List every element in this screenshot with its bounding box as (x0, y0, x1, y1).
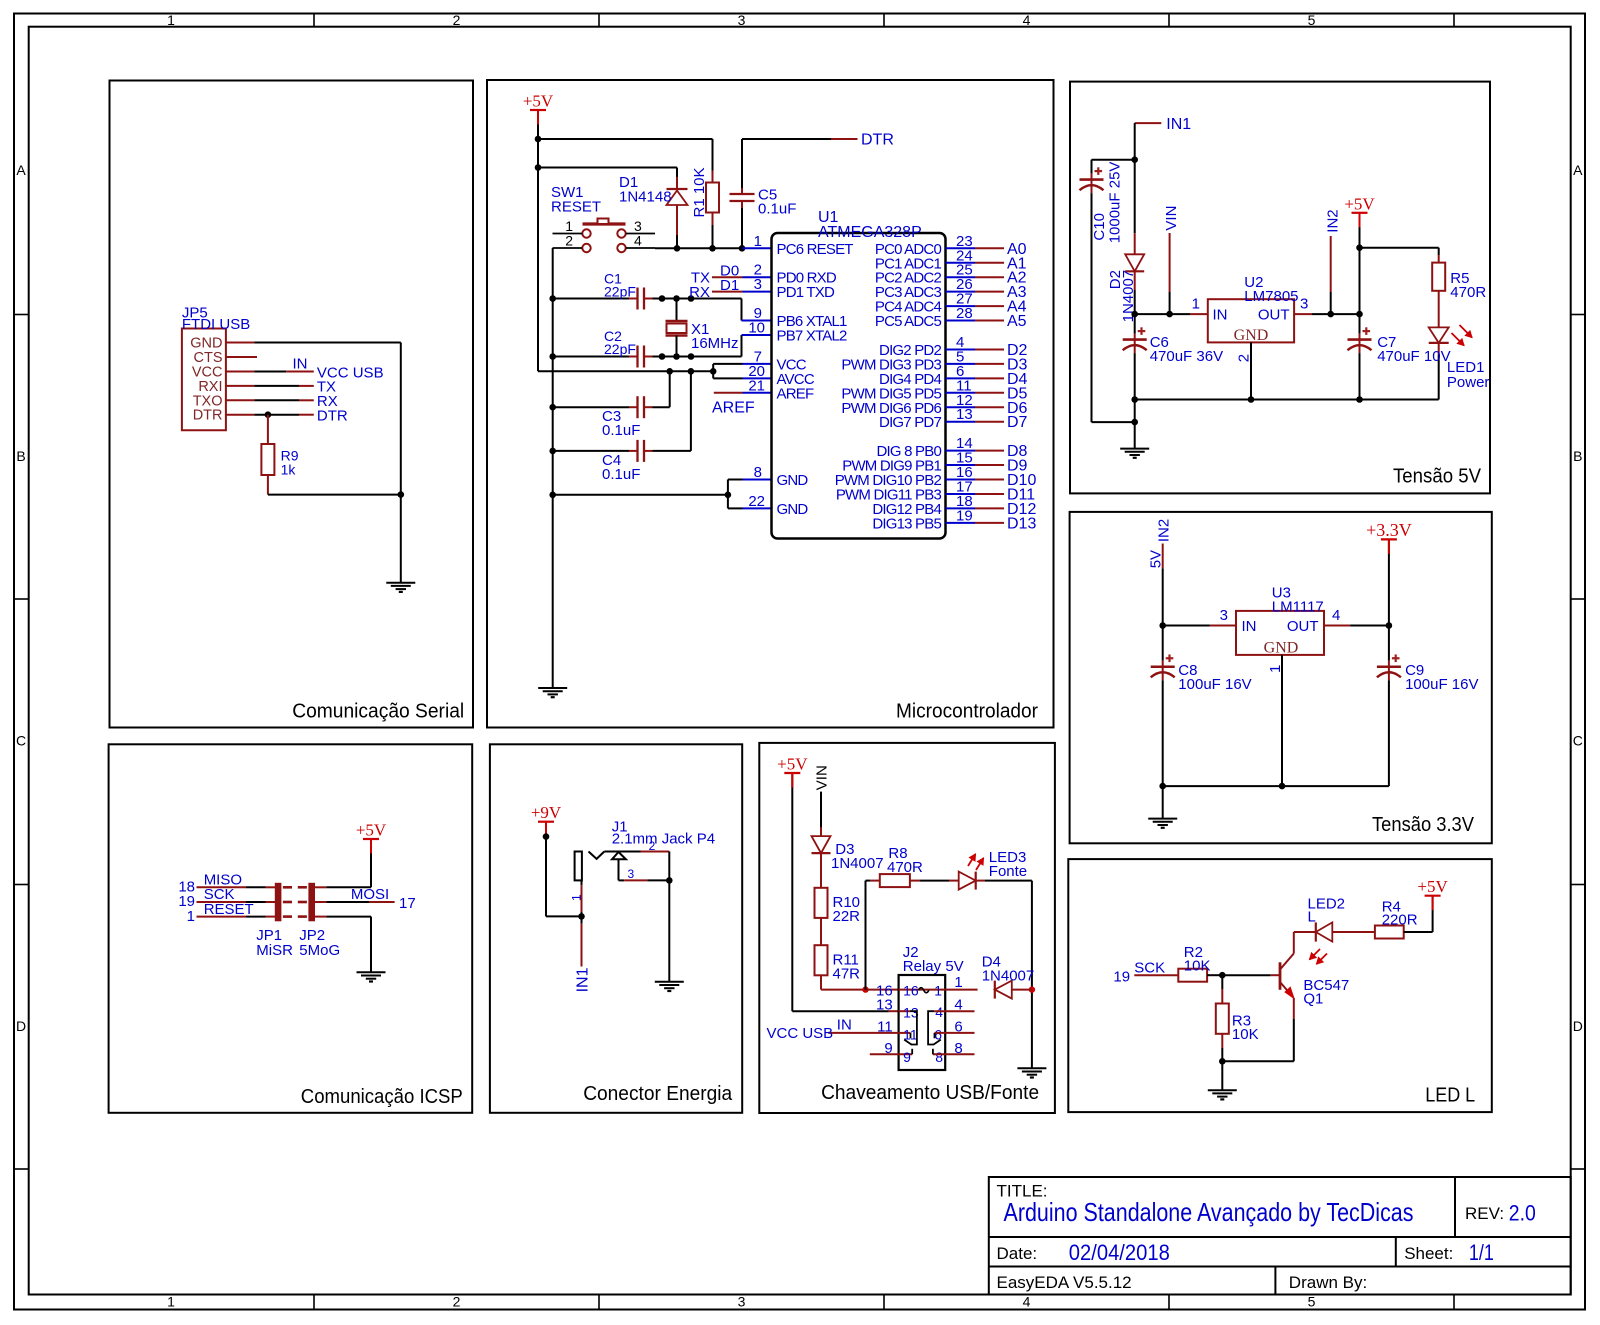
svg-text:100uF 16V: 100uF 16V (1178, 676, 1251, 693)
svg-text:3: 3 (634, 218, 642, 234)
wire pin 23 to net A0 (975, 247, 1004, 249)
svg-text:RESET: RESET (204, 901, 254, 918)
wire pin 11 to net D5 (975, 392, 1004, 394)
frame row ticks right (1571, 314, 1585, 316)
resistor R4 220R (1375, 926, 1404, 939)
svg-text:1: 1 (754, 233, 762, 250)
svg-text:1N4007: 1N4007 (831, 855, 884, 872)
J2 pin 6 stub (935, 1032, 975, 1034)
svg-text:1: 1 (167, 1294, 175, 1310)
net stub IN2 (1330, 236, 1332, 292)
junction IN2 OUT row (1327, 311, 1334, 318)
U1 pin 19 stub right (946, 522, 976, 524)
svg-text:5: 5 (1308, 12, 1316, 28)
svg-text:IN: IN (293, 355, 308, 372)
svg-text:8: 8 (754, 464, 762, 481)
U1 pin 5 stub right (946, 363, 976, 365)
svg-text:MiSR: MiSR (256, 942, 293, 959)
svg-text:1/1: 1/1 (1469, 1240, 1494, 1265)
LED3 emission arrows (968, 854, 976, 866)
wire pin 25 to net A2 (975, 276, 1004, 278)
wire +5V to R5 (1360, 247, 1439, 249)
svg-text:02/04/2018: 02/04/2018 (1069, 1240, 1170, 1265)
capacitor C5 (741, 188, 743, 194)
wire AREF pin21 (714, 392, 743, 394)
svg-text:1: 1 (570, 894, 584, 901)
regulator U2 LM7805 body (1208, 299, 1294, 342)
wire reset net row (655, 247, 743, 249)
svg-text:3: 3 (754, 276, 762, 293)
wire R2 to base (1207, 974, 1222, 976)
svg-text:RX: RX (689, 284, 710, 301)
wire R3 bottom (1221, 1034, 1223, 1048)
junction GND rail (398, 491, 405, 498)
U1 pin 25 stub right (946, 276, 976, 278)
diode D3 1N4007 (812, 836, 831, 853)
svg-text:R1 10K: R1 10K (691, 167, 708, 217)
wire +9V stem (545, 822, 547, 917)
wire R8 to LED3 (910, 880, 920, 882)
svg-text:10K: 10K (1232, 1026, 1259, 1043)
JP5 pin VCC lead (226, 371, 254, 373)
ground symbol tensao33 (1148, 818, 1177, 820)
U1 pin 27 stub right (946, 305, 976, 307)
junction gnd C6 (1131, 396, 1138, 403)
svg-text:MOSI: MOSI (351, 886, 389, 903)
block border Conector Energia (490, 744, 742, 1113)
wire C4 row (553, 450, 629, 452)
svg-text:EasyEDA V5.5.12: EasyEDA V5.5.12 (997, 1273, 1132, 1292)
junction gnd U2 (1248, 396, 1255, 403)
U3 pin 1 GND wire (1281, 655, 1283, 786)
U1 pin 4 stub right (946, 348, 976, 350)
junction C10 top (1131, 156, 1138, 163)
svg-text:IN1: IN1 (575, 967, 592, 992)
svg-text:4: 4 (1332, 607, 1340, 624)
LED LED2 L (1316, 922, 1333, 941)
junction C1 row a (659, 295, 666, 302)
wire +5V rail to R1 top (538, 138, 713, 140)
junction gnd C7 (1356, 396, 1363, 403)
ground symbol ledl (1208, 1089, 1237, 1091)
J2 row13 stub inside (899, 1010, 910, 1012)
svg-text:19: 19 (956, 507, 973, 524)
switch SW1 RESET (583, 222, 626, 225)
U3 pin 4 wire OUT (1324, 625, 1350, 627)
svg-text:Sheet:: Sheet: (1404, 1244, 1453, 1263)
wire +5V left rail (791, 773, 793, 1011)
svg-text:GND: GND (1234, 327, 1269, 344)
J2 pin 4 stub (934, 1010, 974, 1012)
JP1-JP2 dashed links (283, 886, 292, 889)
svg-text:RESET: RESET (551, 199, 601, 216)
regulator U3 LM1117 body (1236, 611, 1324, 655)
ground symbol serial block (386, 582, 415, 584)
svg-text:IN2: IN2 (1324, 209, 1341, 232)
svg-text:19: 19 (1113, 969, 1130, 986)
diode D1 1N4148 (676, 177, 678, 189)
J1 pin 1 lead (581, 880, 583, 885)
J2 coil line row16 inside (899, 989, 946, 991)
svg-text:B: B (16, 448, 25, 464)
U1 pin 21 stub (743, 392, 772, 394)
relay J2 body (899, 975, 946, 1070)
wire +5V rail vertical (537, 110, 539, 371)
LED2 emission arrows (1310, 949, 1321, 960)
frame column ticks top (313, 14, 315, 27)
wire GND net to right rail (254, 342, 400, 344)
capacitor C7 470uF 10V (1359, 314, 1361, 334)
SW1 pin 3 lead (626, 233, 655, 235)
wire R5 to LED1 (1438, 291, 1440, 328)
wire GND row tensao5v (1135, 399, 1439, 401)
junction C2 row b (688, 353, 695, 360)
JP5 pin CTS stub (226, 356, 257, 358)
capacitor C9 100uF 16V (1388, 626, 1390, 661)
wire RESET row (197, 916, 247, 918)
wire DTR to label (254, 414, 299, 416)
svg-text:1: 1 (167, 12, 175, 28)
svg-text:10: 10 (748, 320, 765, 337)
svg-text:1: 1 (954, 974, 962, 991)
svg-text:8: 8 (954, 1040, 962, 1057)
wire IN2 down to IN row (1162, 568, 1164, 625)
svg-text:1N4148: 1N4148 (619, 189, 672, 206)
svg-text:IN1: IN1 (1166, 116, 1191, 133)
J2 pin 9 stub (870, 1053, 912, 1055)
wire pin 12 to net D6 (975, 406, 1004, 408)
wire 33 gnd down (1162, 786, 1164, 819)
svg-text:2: 2 (565, 233, 573, 249)
svg-text:5MoG: 5MoG (299, 942, 340, 959)
U1 pin 1 stub (743, 247, 772, 249)
svg-text:0.1uF: 0.1uF (758, 201, 796, 218)
wire right rail down (1031, 881, 1033, 1069)
crystal X1 16MHz (676, 299, 678, 322)
wire pin 24 to net A1 (975, 262, 1004, 264)
svg-text:9: 9 (884, 1040, 892, 1057)
wire SW1 pin2 to ground rail (552, 248, 554, 688)
junction DTR-R9 (265, 411, 272, 418)
svg-text:22pF: 22pF (604, 341, 636, 357)
wire R11 to row16 (820, 975, 822, 989)
wire VCC to net label (254, 371, 286, 373)
junction VIN (1166, 311, 1173, 318)
svg-text:D1: D1 (720, 277, 739, 294)
junction +5V rail top (535, 136, 542, 143)
svg-text:13: 13 (876, 997, 893, 1014)
svg-text:D: D (16, 1018, 26, 1034)
wire TXO to RX label (254, 399, 299, 401)
wire trunk to pin22 (727, 495, 729, 509)
svg-text:2: 2 (1236, 354, 1253, 362)
resistor R1 10K (712, 171, 714, 183)
svg-text:3: 3 (1300, 296, 1308, 313)
svg-text:1: 1 (187, 908, 195, 925)
junction +9V (543, 833, 550, 840)
capacitor C4 0.1uF (636, 440, 638, 462)
U1 pin 16 stub right (946, 479, 976, 481)
block border Tensao 5V (1070, 82, 1490, 494)
junction base R3 (1219, 972, 1226, 979)
junction reset C5 (739, 245, 746, 252)
wire DTR net corner to C5 (741, 139, 743, 188)
resistor R10 22R (815, 888, 828, 918)
wire to C10 (1092, 159, 1135, 161)
svg-text:2: 2 (453, 1294, 461, 1310)
wire C2 row corner to pin10 (741, 335, 743, 357)
wire MOSI row right (314, 901, 326, 903)
junction rail C2 (549, 353, 556, 360)
junction 33 gnd U3 (1279, 783, 1286, 790)
svg-text:IN: IN (1242, 618, 1257, 635)
ground symbol chaveamento (1017, 1067, 1046, 1069)
svg-text:470R: 470R (887, 859, 923, 876)
J2 coil squiggle (919, 988, 929, 993)
net stub VIN (1169, 233, 1171, 292)
wire C1 row (553, 298, 629, 300)
svg-text:IN: IN (1213, 307, 1228, 324)
resistor R2 10K (1178, 969, 1207, 982)
svg-text:+5V: +5V (523, 92, 554, 111)
block border Comunicacao ICSP (109, 744, 473, 1113)
svg-text:+5V: +5V (356, 821, 387, 840)
wire pin 27 to net A4 (975, 305, 1004, 307)
svg-text:B: B (1573, 448, 1582, 464)
wire C1 row corner to pin9 (741, 299, 743, 321)
net stub IN1 (1135, 122, 1162, 124)
U2 pin 3 wire OUT (1294, 313, 1312, 315)
junction C2 row X1 (673, 353, 680, 360)
svg-text:Fonte: Fonte (989, 863, 1027, 880)
svg-text:VCC USB: VCC USB (767, 1025, 834, 1042)
svg-text:9: 9 (903, 1049, 911, 1065)
capacitor C3 0.1uF (636, 396, 638, 418)
svg-text:+3.3V: +3.3V (1366, 520, 1412, 540)
svg-text:0.1uF: 0.1uF (602, 422, 640, 439)
wire pin 26 to net A3 (975, 291, 1004, 293)
wire gnd down (1134, 400, 1136, 449)
ground symbol icsp (357, 971, 386, 973)
J1 pin 3 wire (619, 879, 625, 881)
svg-text:4: 4 (1023, 1294, 1031, 1310)
wire pin 28 to net A5 (975, 320, 1004, 322)
U1 pin 12 stub right (946, 406, 976, 408)
svg-text:PC5 ADC5: PC5 ADC5 (875, 313, 942, 330)
U1 pin 9 stub (742, 320, 772, 322)
svg-text:C: C (1573, 733, 1583, 749)
svg-text:4: 4 (954, 997, 962, 1014)
block border LED L (1068, 859, 1492, 1112)
svg-text:16MHz: 16MHz (691, 335, 739, 352)
frame row ticks left (14, 314, 29, 316)
wire rail to D1 top (538, 167, 677, 169)
svg-text:LM7805: LM7805 (1244, 288, 1298, 305)
svg-text:8: 8 (935, 1049, 943, 1065)
svg-text:0.1uF: 0.1uF (602, 466, 640, 483)
svg-text:PB7 XTAL2: PB7 XTAL2 (777, 328, 848, 345)
capacitor C8 100uF 16V (1162, 626, 1164, 661)
resistor R11 47R (815, 945, 828, 975)
capacitor C1 22pF (636, 288, 638, 310)
svg-text:5V: 5V (1147, 550, 1164, 568)
svg-text:1: 1 (934, 982, 942, 998)
block border Chaveamento (759, 743, 1055, 1113)
svg-text:3: 3 (738, 12, 746, 28)
svg-text:Power: Power (1447, 374, 1490, 391)
svg-text:FTDI USB: FTDI USB (182, 316, 250, 333)
svg-text:IN2: IN2 (1156, 519, 1173, 542)
U1 pin 11 stub right (946, 392, 976, 394)
wire pin 19 to net D13 (975, 522, 1004, 524)
junction OUT row C7 (1356, 311, 1363, 318)
wire IN row (1135, 313, 1190, 315)
U1 pin 13 stub right (946, 421, 976, 423)
wire R3 top (1221, 975, 1223, 989)
svg-text:1: 1 (565, 218, 573, 234)
wire collector to LED2 (1294, 931, 1316, 933)
wire jack right down (668, 852, 670, 982)
U1 pin 15 stub right (946, 464, 976, 466)
svg-text:Conector Energia: Conector Energia (583, 1083, 733, 1105)
svg-text:D7: D7 (1007, 414, 1028, 431)
wire junction up to R8 (865, 881, 867, 990)
svg-text:+5V: +5V (1417, 877, 1448, 896)
junction rail C4 (549, 448, 556, 455)
svg-text:22pF: 22pF (604, 283, 636, 299)
diode D4 1N4007 (995, 981, 1012, 999)
svg-text:+9V: +9V (531, 803, 562, 822)
svg-text:PC6 RESET: PC6 RESET (777, 241, 854, 258)
svg-text:Chaveamento USB/Fonte: Chaveamento USB/Fonte (821, 1082, 1039, 1104)
svg-text:Comunicação Serial: Comunicação Serial (292, 701, 464, 723)
junction trunk C4 (688, 368, 695, 375)
wire DTR down to R9 (267, 415, 269, 444)
diode D2 1N4007 (1125, 254, 1144, 271)
connector JP5 body (182, 329, 226, 431)
wire pin 15 to net D9 (975, 464, 1004, 466)
wire IN row 33 (1163, 625, 1210, 627)
net stub IN2 33 (1162, 544, 1164, 569)
wire +5V stem (1359, 213, 1361, 314)
svg-text:GND: GND (777, 501, 809, 518)
svg-text:LM1117: LM1117 (1272, 598, 1324, 615)
svg-text:A5: A5 (1007, 313, 1027, 330)
junction C1 row b (688, 295, 695, 302)
svg-text:16: 16 (903, 982, 919, 998)
U1 pin 3 stub (743, 291, 772, 293)
J1 tip triangle (612, 852, 626, 859)
svg-text:Drawn By:: Drawn By: (1289, 1273, 1367, 1292)
svg-text:47R: 47R (833, 966, 861, 983)
svg-text:1: 1 (1192, 296, 1200, 313)
svg-text:11: 11 (877, 1018, 893, 1035)
svg-text:IN: IN (837, 1017, 852, 1034)
J2 pin 8 stub (933, 1053, 975, 1055)
wire LED2 to R4 (1332, 931, 1375, 933)
wire IN1 down (1134, 123, 1136, 160)
wire VCC trunk (538, 370, 713, 372)
svg-text:Comunicação ICSP: Comunicação ICSP (301, 1086, 463, 1108)
U1 pin 6 stub right (946, 377, 976, 379)
resistor R9 (261, 444, 274, 475)
wire pin 6 to net D4 (975, 377, 1004, 379)
U2 pin 2 GND wire (1250, 342, 1252, 399)
wire SCK to R2 (1134, 974, 1178, 976)
svg-text:1: 1 (1267, 665, 1284, 673)
wire +3.3V stem (1388, 539, 1390, 625)
wire R10 to R11 (820, 918, 822, 945)
svg-text:470uF 10V: 470uF 10V (1377, 348, 1450, 365)
wire row16 to J2 (866, 989, 889, 991)
junction rail to D1 (535, 164, 542, 171)
svg-text:ATMEGA328P: ATMEGA328P (818, 224, 922, 241)
wire GND row 33 (1163, 785, 1389, 787)
wire gnd down ledl (1221, 1061, 1223, 1090)
svg-text:2: 2 (453, 12, 461, 28)
wire MISO to +5V (314, 886, 326, 888)
block border Microcontrolador (487, 80, 1054, 728)
wire VCC USB row11 (828, 1032, 898, 1034)
U1 pin 28 stub right (946, 320, 976, 322)
wire C2 row (553, 356, 629, 358)
svg-text:GND: GND (1264, 640, 1299, 657)
wire GND rail vertical (400, 343, 402, 583)
junction rail C1 (549, 295, 556, 302)
JP5 pin DTR lead (226, 414, 254, 416)
svg-text:VIN: VIN (1163, 206, 1180, 231)
junction rail C3 (549, 404, 556, 411)
svg-text:22R: 22R (833, 908, 861, 925)
svg-text:1000uF 25V: 1000uF 25V (1106, 162, 1123, 244)
wire pin 13 to net D7 (975, 421, 1004, 423)
junction C1 row X1 (673, 295, 680, 302)
title block (989, 1177, 1571, 1295)
svg-text:LED L: LED L (1425, 1085, 1475, 1107)
svg-text:OUT: OUT (1258, 307, 1290, 324)
svg-text:5: 5 (1308, 1294, 1316, 1310)
junction +5V to R5 (1356, 244, 1363, 251)
svg-text:2.0: 2.0 (1509, 1201, 1536, 1226)
junction GND trunk split (725, 492, 732, 499)
red junction row16 (862, 986, 868, 992)
U1 pin 22 stub (743, 507, 772, 509)
junction trunk split (710, 368, 717, 375)
svg-text:1N4007: 1N4007 (982, 968, 1035, 985)
wire pin 14 to net D8 (975, 450, 1004, 452)
svg-text:2.1mm Jack P4: 2.1mm Jack P4 (612, 831, 715, 848)
wire MISO row (197, 886, 247, 888)
svg-text:OUT: OUT (1287, 618, 1319, 635)
svg-text:Date:: Date: (997, 1244, 1038, 1263)
J2 pin 1 wire to D4 (945, 989, 977, 991)
wire RESET row right to gnd (314, 916, 326, 918)
J2 switch left contact (910, 1011, 917, 1044)
svg-text:3: 3 (628, 867, 635, 881)
SW1 pin 4 lead (626, 247, 655, 249)
svg-text:17: 17 (399, 895, 416, 912)
svg-text:A: A (16, 162, 26, 178)
wire RXI to TX label (254, 385, 299, 387)
svg-text:C: C (16, 733, 26, 749)
junction trunk C3 (666, 368, 673, 375)
ground symbol microcontroller (538, 687, 567, 689)
svg-text:4: 4 (1023, 12, 1031, 28)
svg-text:Q1: Q1 (1303, 991, 1323, 1008)
junction emitter gnd (1219, 1058, 1226, 1065)
svg-text:REV:: REV: (1465, 1204, 1504, 1223)
wire R4 to +5V (1404, 931, 1433, 933)
